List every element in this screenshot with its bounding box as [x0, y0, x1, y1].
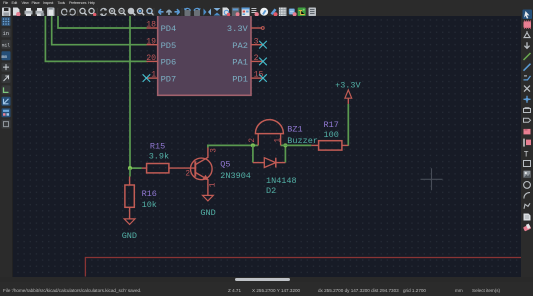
svg-text:10k: 10k: [142, 200, 157, 210]
svg-text:2: 2: [249, 138, 257, 143]
horizontal scrollbar: [0, 277, 533, 282]
wire diode anode drop: [252, 145, 254, 162]
svg-text:D2: D2: [266, 186, 276, 196]
svg-text:R17: R17: [324, 120, 339, 130]
top toolbar icons: [0, 7, 533, 17]
svg-text:20: 20: [146, 54, 156, 63]
svg-text:in: in: [3, 30, 10, 37]
svg-text:1: 1: [275, 138, 283, 143]
svg-text:T: T: [524, 150, 529, 159]
svg-text:2: 2: [254, 54, 259, 63]
no-connect X on PD1: [259, 74, 267, 82]
wire base net vertical: [130, 16, 142, 168]
power +3.3V: [335, 81, 361, 104]
svg-text:PD5: PD5: [161, 41, 177, 51]
node junction at buzzer pin 2: [251, 143, 255, 147]
svg-text:3.9k: 3.9k: [149, 151, 169, 161]
svg-text:2: 2: [185, 170, 190, 178]
resistor R16: [125, 177, 157, 219]
sheet border: [85, 258, 521, 277]
svg-text:GND: GND: [200, 208, 215, 218]
buzzer BZ1: [249, 120, 318, 146]
svg-text:1N4148: 1N4148: [266, 176, 297, 186]
wire PD5 net: [52, 16, 147, 45]
diode D2: [253, 158, 297, 197]
svg-text:PD6: PD6: [161, 58, 177, 68]
pin 15 PD1: [232, 71, 263, 85]
node junction at buzzer pin 1: [283, 143, 287, 147]
transistor Q5: [185, 148, 251, 196]
svg-text:2N3904: 2N3904: [220, 171, 251, 181]
wire PD4 net: [58, 16, 147, 28]
svg-text:mm: mm: [2, 55, 8, 60]
wire R17 to +3.3V: [347, 104, 349, 146]
svg-text:mil: mil: [2, 43, 11, 49]
svg-text:Q5: Q5: [220, 160, 230, 170]
svg-text:PA2: PA2: [232, 41, 248, 51]
status bar: [0, 282, 533, 296]
pin 3 PA2: [232, 37, 263, 51]
node junction at R15/R16: [128, 166, 132, 170]
pin 1 PD7: [147, 71, 177, 85]
no-connect X on PA1: [259, 58, 267, 66]
svg-text:BZ1: BZ1: [287, 125, 302, 135]
pin 20 PD6: [146, 54, 176, 68]
wire collector net: [208, 145, 258, 147]
svg-text:GND: GND: [122, 231, 137, 241]
svg-text:3: 3: [210, 148, 218, 153]
left toolbar: [0, 16, 13, 277]
wire buzzer to R17: [281, 144, 312, 146]
svg-text:1: 1: [210, 182, 218, 187]
svg-text:+3.3V: +3.3V: [335, 81, 361, 91]
right toolbar: [521, 16, 533, 277]
svg-text:PD4: PD4: [161, 24, 177, 34]
svg-text:3: 3: [254, 37, 259, 46]
svg-text:3.3V: 3.3V: [227, 24, 249, 34]
svg-text:18: 18: [146, 21, 156, 30]
pin 2 PA1: [232, 54, 263, 68]
ground below R16: [122, 219, 137, 241]
svg-text:R16: R16: [142, 189, 157, 199]
wire PD6 net: [45, 16, 146, 61]
svg-text:PD1: PD1: [232, 74, 248, 84]
svg-text:R15: R15: [150, 141, 165, 151]
svg-text:Buzzer: Buzzer: [287, 136, 318, 146]
wire diode cathode rise: [284, 145, 286, 162]
pin 19 PD5: [146, 37, 176, 51]
pin 3.3V power: [227, 24, 262, 34]
svg-text:1: 1: [151, 71, 156, 80]
menu bar: [0, 0, 533, 7]
svg-text:19: 19: [146, 37, 156, 46]
crosshair cursor: [421, 168, 443, 190]
no-connect X on PA2: [259, 41, 267, 49]
ground below Q5: [200, 195, 215, 218]
unconnected pin circle 3.3V: [261, 27, 264, 30]
svg-text:100: 100: [324, 130, 339, 140]
svg-text:PA1: PA1: [232, 58, 248, 68]
svg-text:PD7: PD7: [161, 74, 177, 84]
resistor R17: [311, 120, 348, 150]
resistor R15: [142, 141, 196, 173]
wire R16 stub: [129, 168, 131, 176]
IC U1 body: [158, 10, 251, 95]
pin 18 PD4: [146, 21, 176, 35]
no-connect X on PD7: [143, 74, 151, 82]
